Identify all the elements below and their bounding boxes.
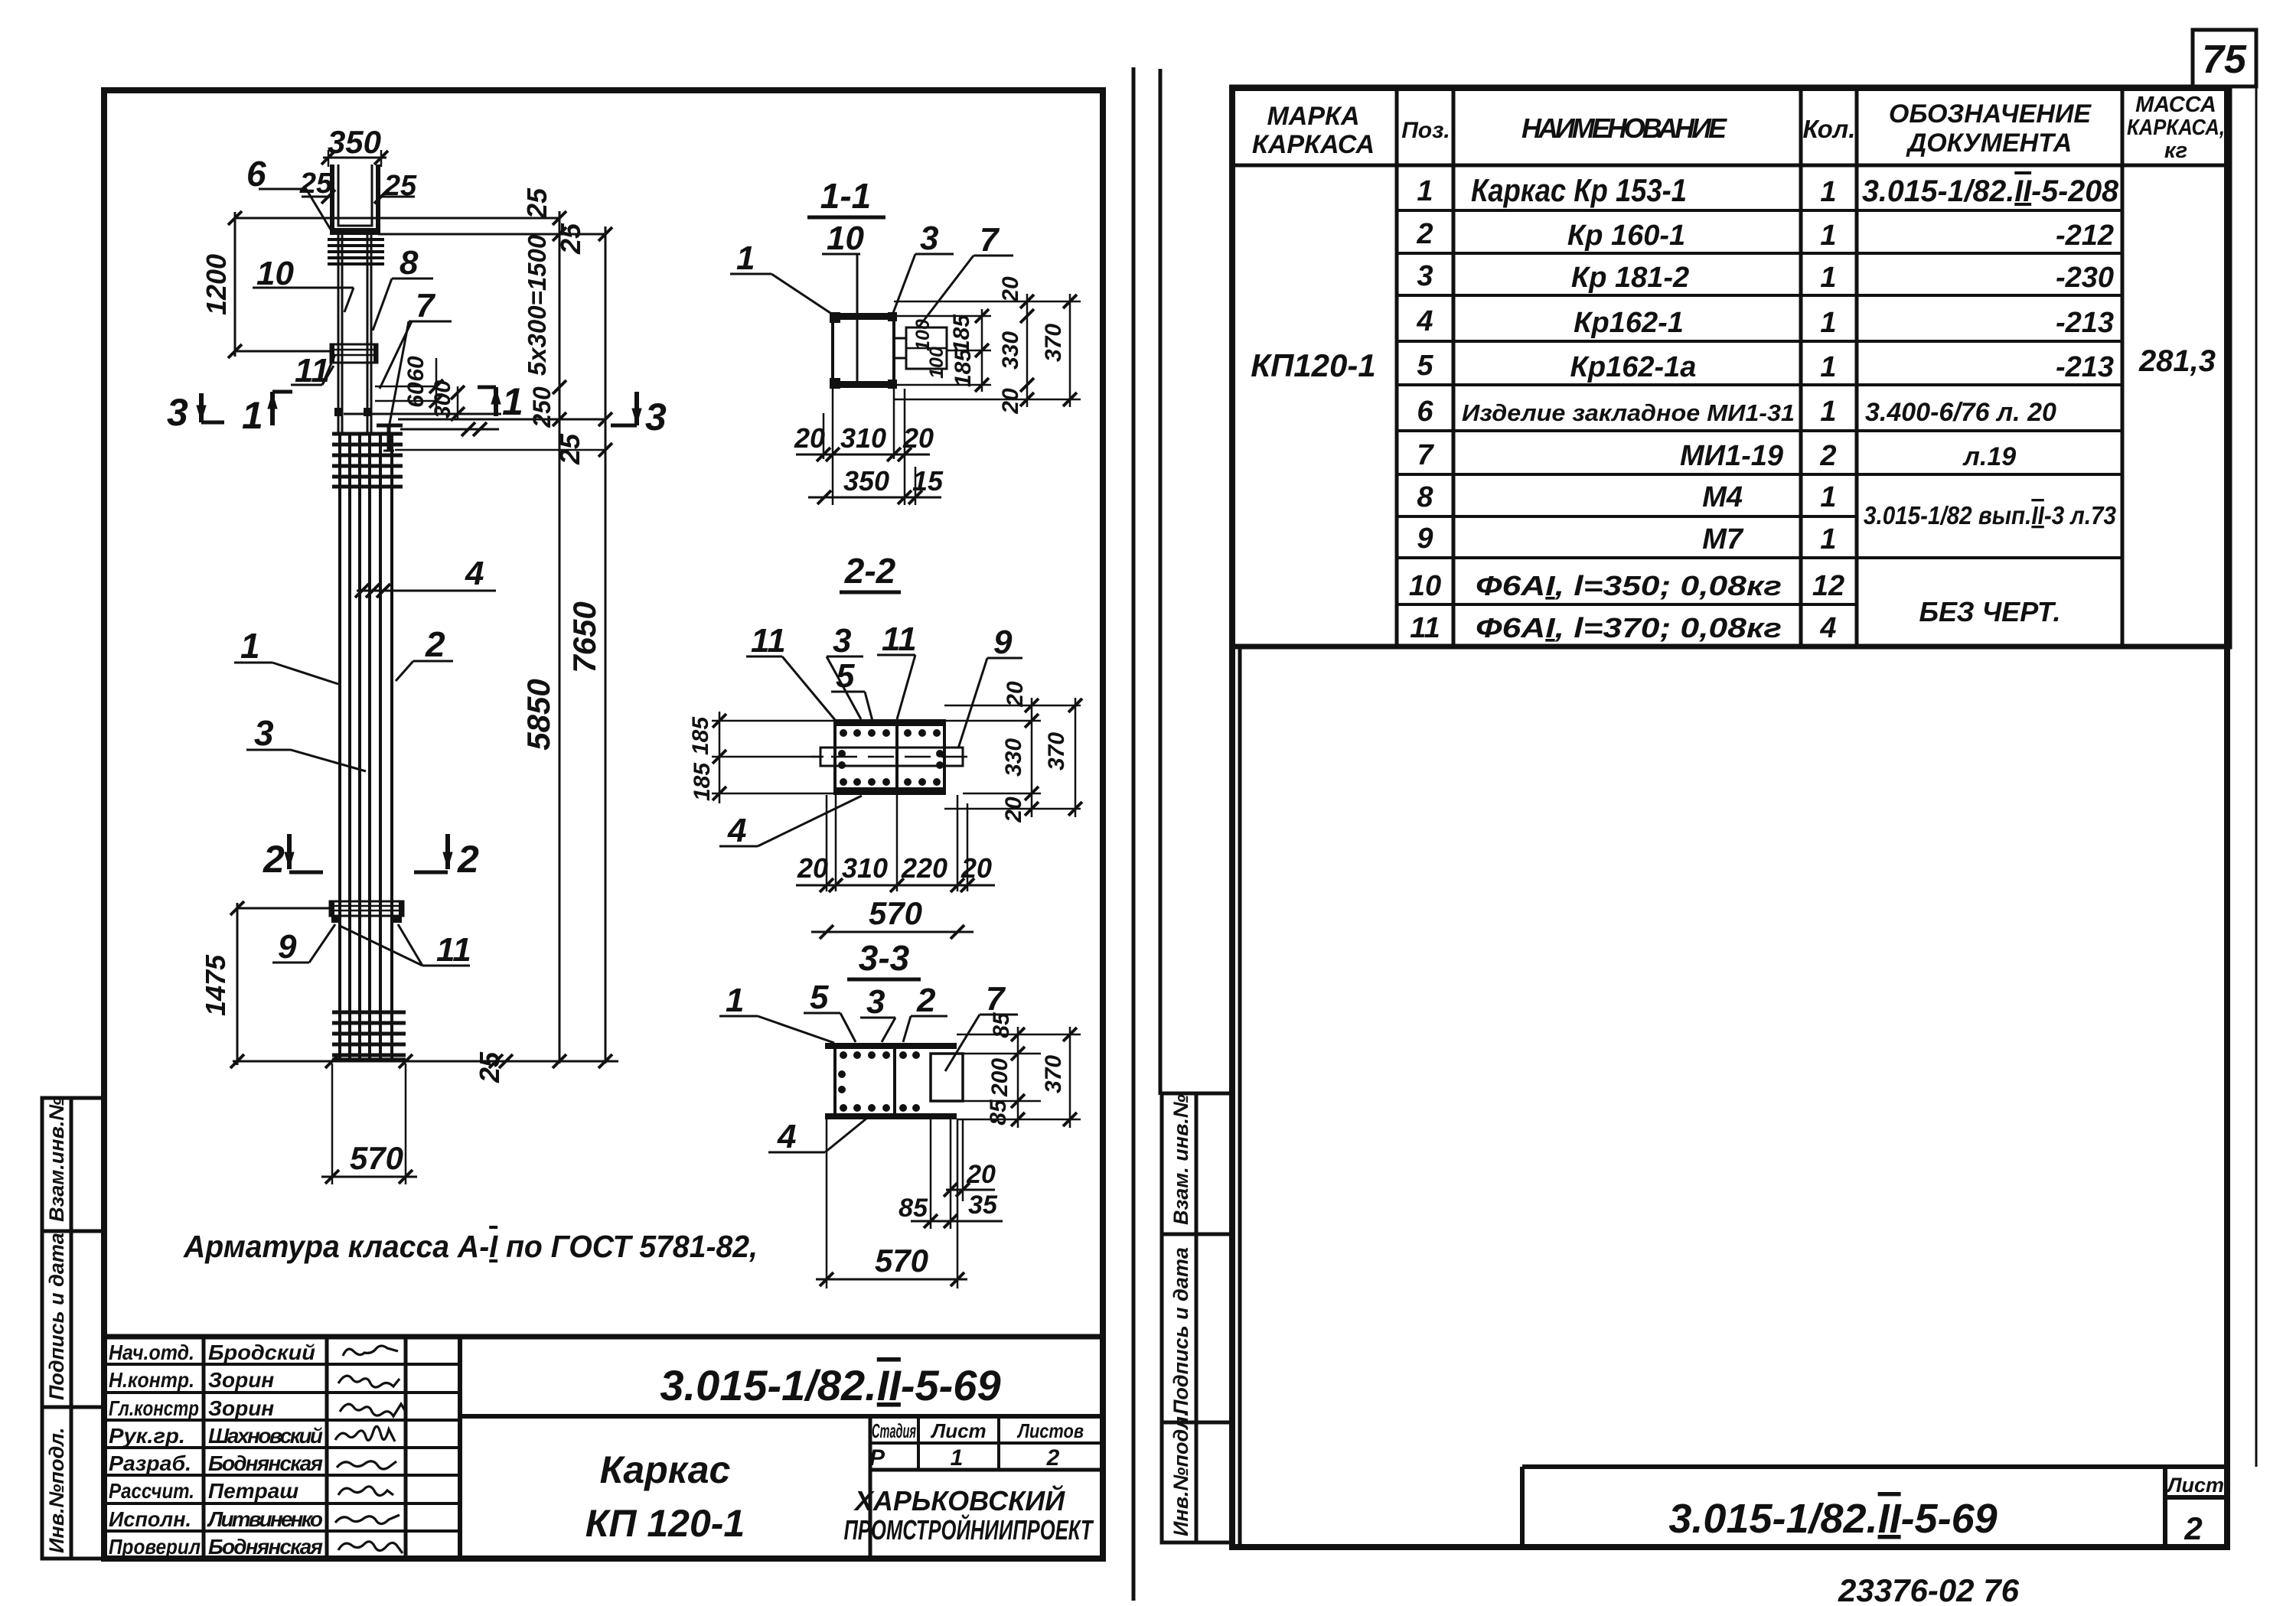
svg-text:4: 4 (1819, 612, 1836, 644)
svg-text:370: 370 (1041, 1055, 1066, 1093)
svg-text:1: 1 (1820, 176, 1836, 208)
svg-text:3.015-1/82.II-5-208: 3.015-1/82.II-5-208 (1862, 174, 2119, 208)
60/60/300 small dims right of column (375, 386, 436, 388)
svg-text:3: 3 (645, 396, 667, 438)
corbel squares (334, 408, 343, 416)
right sheet right edge (2255, 31, 2258, 1467)
svg-text:Каркас Кр 153-1: Каркас Кр 153-1 (1471, 172, 1687, 208)
svg-text:Р: Р (869, 1445, 885, 1471)
svg-text:25: 25 (474, 1051, 505, 1083)
svg-text:2-2: 2-2 (844, 551, 896, 591)
svg-text:220: 220 (901, 852, 947, 884)
svg-text:М4: М4 (1702, 481, 1743, 513)
main rect (835, 721, 944, 793)
svg-text:3.015-1/82.II-5-69: 3.015-1/82.II-5-69 (660, 1361, 1000, 1409)
svg-text:2: 2 (425, 624, 445, 664)
svg-text:4: 4 (1416, 305, 1433, 337)
svg-text:11: 11 (1410, 612, 1440, 644)
svg-text:370: 370 (1044, 732, 1069, 770)
svg-text:Исполн.: Исполн. (109, 1507, 191, 1531)
svg-text:Арматура класса А-I по ГОС: Арматура класса А-I по ГОСТ 5781-82, (183, 1229, 758, 1264)
svg-text:5: 5 (1417, 350, 1433, 382)
svg-text:4: 4 (727, 812, 746, 849)
svg-text:Взам. инв.№: Взам. инв.№ (1169, 1094, 1192, 1225)
svg-text:Кол.: Кол. (1803, 115, 1856, 143)
svg-text:85: 85 (899, 1194, 928, 1223)
svg-text:370: 370 (1041, 324, 1066, 362)
svg-text:5850: 5850 (520, 679, 556, 750)
svg-text:3.015-1/82.II-5-69: 3.015-1/82.II-5-69 (1668, 1496, 1997, 1542)
350 top dim (323, 157, 386, 159)
svg-text:1: 1 (502, 380, 523, 423)
svg-text:МАССА: МАССА (2135, 93, 2216, 117)
middle embedded plate MI1-19 (331, 344, 377, 363)
svg-text:1475: 1475 (200, 954, 231, 1016)
svg-text:Шахновский: Шахновский (208, 1424, 323, 1448)
svg-text:Взам.инв.№: Взам.инв.№ (45, 1097, 68, 1222)
svg-text:Подпись и дата: Подпись и дата (45, 1233, 68, 1400)
right 3 mark (634, 392, 639, 425)
svg-text:1: 1 (242, 394, 263, 437)
svg-text:ХАРЬКОВСКИЙ: ХАРЬКОВСКИЙ (853, 1484, 1065, 1516)
svg-text:1-1: 1-1 (820, 176, 871, 216)
section body (825, 1043, 957, 1049)
svg-text:Инв.№подл.: Инв.№подл. (45, 1428, 68, 1553)
svg-text:3: 3 (167, 391, 188, 434)
svg-text:2: 2 (457, 838, 479, 881)
svg-text:Литвиненко: Литвиненко (207, 1507, 323, 1531)
svg-text:-213: -213 (2056, 351, 2114, 383)
channel strip (9) (820, 748, 963, 766)
svg-text:2: 2 (1819, 440, 1836, 472)
horizontal extension lines top (235, 217, 559, 220)
svg-text:3: 3 (920, 220, 938, 257)
svg-text:20: 20 (966, 1160, 996, 1189)
svg-text:11: 11 (751, 622, 786, 660)
svg-text:330: 330 (998, 331, 1023, 370)
svg-text:КАРКАСА,: КАРКАСА, (2127, 116, 2225, 140)
svg-text:кг: кг (2164, 138, 2187, 163)
svg-text:3.400-6/76 л. 20: 3.400-6/76 л. 20 (1865, 398, 2056, 427)
bottom hatch (332, 1011, 406, 1015)
570 bottom dim (331, 1064, 334, 1184)
right 1 flag (494, 387, 498, 416)
svg-text:МАРКА: МАРКА (1267, 102, 1359, 131)
bottom long line (233, 1060, 618, 1063)
svg-text:-212: -212 (2056, 220, 2114, 252)
svg-text:1: 1 (1820, 351, 1836, 383)
svg-text:1: 1 (1417, 175, 1433, 207)
570 (811, 931, 974, 933)
right dims (944, 705, 1081, 707)
svg-text:Н.контр.: Н.контр. (109, 1368, 194, 1392)
svg-text:9: 9 (993, 624, 1013, 661)
bottom outline extensions (826, 795, 828, 891)
svg-text:20: 20 (998, 276, 1023, 303)
svg-text:9: 9 (1417, 523, 1433, 555)
svg-text:25: 25 (521, 187, 553, 220)
svg-text:100: 100 (926, 347, 947, 379)
svg-text:Бродский: Бродский (208, 1341, 315, 1364)
svg-text:Разраб.: Разраб. (109, 1451, 191, 1475)
right page frame (1232, 88, 2227, 1547)
svg-text:л.19: л.19 (1962, 442, 2017, 471)
svg-text:Поз.: Поз. (1401, 118, 1450, 143)
inner box left edge below table (1238, 647, 1242, 1547)
svg-text:185: 185 (690, 762, 715, 801)
right dim line B x=791 (605, 226, 607, 1064)
svg-text:1200: 1200 (201, 254, 232, 315)
svg-text:2: 2 (1046, 1445, 1060, 1471)
left page frame (104, 90, 1103, 1559)
svg-text:Петраш: Петраш (208, 1479, 298, 1503)
svg-text:7650: 7650 (566, 601, 602, 673)
rebar dots (838, 729, 944, 786)
svg-text:23376-02 76: 23376-02 76 (1838, 1572, 2020, 1606)
svg-text:М7: М7 (1702, 523, 1744, 555)
svg-text:25: 25 (383, 170, 417, 202)
svg-text:3: 3 (254, 713, 274, 753)
embedded channel MI1-31 at top (332, 165, 378, 232)
svg-text:1: 1 (240, 626, 260, 666)
svg-text:250: 250 (528, 386, 556, 428)
svg-text:300: 300 (430, 380, 455, 419)
1200 dim (234, 212, 236, 357)
svg-text:60: 60 (403, 382, 429, 408)
svg-text:Инв.№подл.: Инв.№подл. (1169, 1411, 1192, 1536)
svg-text:60: 60 (403, 356, 429, 382)
svg-text:Подпись и дата: Подпись и дата (1169, 1247, 1192, 1415)
svg-text:Зорин: Зорин (208, 1368, 274, 1392)
svg-text:Кр162-1а: Кр162-1а (1570, 351, 1697, 383)
svg-text:35: 35 (968, 1191, 998, 1220)
svg-text:15: 15 (912, 465, 944, 497)
bottom dims (832, 386, 834, 505)
svg-text:1: 1 (736, 239, 755, 277)
left dims (712, 720, 835, 722)
svg-text:100: 100 (912, 319, 934, 351)
MI1-19 bracket (906, 327, 947, 369)
svg-text:КАРКАСА: КАРКАСА (1252, 130, 1375, 159)
signatures in title block (335, 1346, 406, 1553)
right extensions (894, 301, 1081, 303)
T element M4 (377, 424, 403, 428)
right page sheet left edge (1159, 69, 1163, 1095)
square (833, 314, 894, 386)
svg-text:25: 25 (555, 223, 586, 255)
svg-text:185: 185 (688, 716, 713, 755)
svg-text:Стадия: Стадия (872, 1419, 916, 1442)
svg-text:20: 20 (1001, 796, 1026, 823)
svg-text:1: 1 (1820, 481, 1836, 513)
svg-text:7: 7 (1417, 439, 1434, 471)
svg-text:3: 3 (833, 622, 851, 660)
dim verticals right (981, 309, 983, 392)
svg-text:1: 1 (1820, 262, 1836, 294)
svg-text:1: 1 (1820, 396, 1836, 428)
25/25 top small dims (302, 196, 331, 198)
svg-text:85: 85 (986, 1099, 1011, 1126)
svg-text:Рук.гр.: Рук.гр. (109, 1424, 185, 1448)
main bars upper section (338, 235, 340, 432)
svg-text:570: 570 (869, 895, 922, 931)
svg-text:БЕЗ ЧЕРТ.: БЕЗ ЧЕРТ. (1919, 596, 2061, 627)
svg-text:МИ1-19: МИ1-19 (1680, 440, 1783, 472)
svg-text:310: 310 (840, 422, 886, 454)
small bottom dims (930, 1119, 932, 1229)
svg-text:3-3: 3-3 (859, 938, 910, 978)
svg-text:КП 120-1: КП 120-1 (585, 1502, 745, 1545)
svg-text:9: 9 (278, 928, 297, 966)
svg-text:1: 1 (726, 982, 744, 1019)
svg-text:Кр 181-2: Кр 181-2 (1571, 262, 1689, 294)
lower embedded plate (330, 901, 403, 916)
svg-text:25: 25 (299, 168, 333, 200)
570 (826, 1119, 828, 1288)
svg-text:350: 350 (328, 124, 381, 160)
svg-text:185: 185 (949, 314, 974, 353)
svg-text:20: 20 (998, 388, 1023, 415)
svg-text:75: 75 (2202, 37, 2247, 82)
svg-text:185: 185 (951, 348, 976, 387)
corbel dense hatch (332, 432, 403, 436)
svg-text:350: 350 (843, 465, 889, 497)
svg-text:Зорин: Зорин (208, 1396, 274, 1420)
svg-text:5: 5 (836, 657, 855, 695)
fold line between pages (1132, 67, 1136, 1601)
svg-text:Лист: Лист (2166, 1474, 2224, 1497)
svg-text:-213: -213 (2056, 307, 2114, 339)
svg-text:Кр 160-1: Кр 160-1 (1567, 220, 1685, 252)
svg-text:2: 2 (2183, 1510, 2202, 1546)
svg-text:570: 570 (350, 1140, 403, 1176)
right dims (957, 1034, 1081, 1036)
svg-text:Ф6АI, l=370; 0,08кг: Ф6АI, l=370; 0,08кг (1476, 612, 1782, 643)
svg-text:5x300=1500: 5x300=1500 (523, 234, 551, 376)
svg-text:Ф6АI, l=350; 0,08кг: Ф6АI, l=350; 0,08кг (1476, 570, 1782, 601)
svg-text:Проверил: Проверил (109, 1535, 201, 1559)
svg-text:20: 20 (794, 422, 825, 454)
svg-text:20: 20 (902, 422, 934, 454)
svg-text:10: 10 (1409, 570, 1441, 602)
svg-text:НАИМЕНОВАНИЕ: НАИМЕНОВАНИЕ (1521, 112, 1727, 144)
svg-text:Боднянская: Боднянская (208, 1451, 323, 1475)
svg-text:85: 85 (989, 1011, 1014, 1038)
svg-text:281,3: 281,3 (2138, 344, 2216, 378)
svg-text:Изделие закладное МИ1-31: Изделие закладное МИ1-31 (1462, 399, 1795, 426)
svg-text:200: 200 (987, 1058, 1013, 1097)
svg-text:20: 20 (960, 852, 992, 884)
svg-text:ДОКУМЕНТА: ДОКУМЕНТА (1906, 129, 2073, 158)
svg-text:1: 1 (951, 1445, 964, 1471)
main bars lower section (338, 432, 341, 1059)
svg-text:ОБОЗНАЧЕНИЕ: ОБОЗНАЧЕНИЕ (1889, 99, 2092, 129)
svg-text:Нач.отд.: Нач.отд. (109, 1341, 194, 1364)
svg-text:330: 330 (1001, 738, 1026, 777)
svg-text:-230: -230 (2056, 262, 2114, 294)
svg-text:20: 20 (797, 852, 828, 884)
1475 dim (236, 903, 239, 1065)
svg-text:3: 3 (1417, 260, 1433, 292)
svg-text:8: 8 (400, 244, 419, 282)
svg-text:11: 11 (882, 621, 917, 658)
svg-text:10: 10 (827, 220, 864, 257)
svg-text:1: 1 (1820, 523, 1836, 555)
svg-text:7: 7 (980, 221, 1000, 259)
stirrup hatch top (328, 238, 384, 241)
svg-text:ПРОМСТРОЙНИИПРОЕКТ: ПРОМСТРОЙНИИПРОЕКТ (844, 1513, 1094, 1546)
svg-text:Каркас: Каркас (600, 1448, 731, 1491)
svg-text:КП120-1: КП120-1 (1251, 347, 1375, 383)
svg-text:7: 7 (416, 287, 436, 324)
svg-text:Лист: Лист (930, 1419, 986, 1442)
svg-text:20: 20 (1003, 681, 1028, 708)
svg-text:Кр162-1: Кр162-1 (1574, 307, 1684, 339)
svg-text:25: 25 (554, 433, 585, 465)
svg-text:Листов: Листов (1016, 1419, 1084, 1442)
svg-text:5: 5 (810, 979, 829, 1016)
svg-text:4: 4 (465, 555, 484, 592)
svg-text:6: 6 (246, 154, 266, 194)
corbel level lines (344, 413, 501, 415)
svg-text:6: 6 (1417, 396, 1433, 428)
svg-text:12: 12 (1812, 570, 1844, 602)
svg-text:Рассчит.: Рассчит. (109, 1479, 194, 1503)
svg-text:310: 310 (842, 852, 888, 884)
svg-text:11: 11 (436, 931, 471, 969)
svg-text:2: 2 (1416, 218, 1433, 250)
svg-text:4: 4 (777, 1118, 796, 1155)
svg-text:1: 1 (1820, 220, 1836, 252)
svg-text:7: 7 (986, 980, 1006, 1018)
svg-text:3.015-1/82 вып.II-3 л.73: 3.015-1/82 вып.II-3 л.73 (1864, 501, 2116, 529)
svg-text:2: 2 (263, 838, 285, 881)
svg-text:Гл.констр: Гл.констр (109, 1396, 199, 1420)
svg-text:Боднянская: Боднянская (208, 1535, 323, 1559)
svg-text:2: 2 (916, 982, 936, 1019)
svg-text:1: 1 (1820, 307, 1836, 339)
right dim line A x=731 (559, 211, 561, 1064)
svg-text:570: 570 (875, 1243, 928, 1279)
svg-text:8: 8 (1417, 481, 1433, 513)
svg-text:3: 3 (866, 983, 885, 1021)
